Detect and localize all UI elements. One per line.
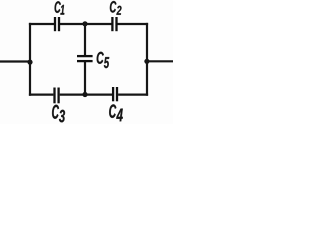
wire right terminal lead <box>147 60 173 62</box>
node junction dot right <box>144 59 149 64</box>
wire top rail right segment <box>118 23 149 25</box>
wire left terminal lead <box>0 60 30 62</box>
capacitor C1 plates <box>54 17 56 31</box>
wire left vertical <box>29 23 31 96</box>
capacitor C3 plates <box>53 88 55 104</box>
wire middle vertical top segment <box>84 23 86 56</box>
node junction dot left <box>27 60 32 65</box>
label C5 <box>97 52 110 68</box>
label C4 <box>109 104 123 121</box>
label C2 <box>110 1 122 15</box>
wire bottom rail middle segment <box>60 93 112 95</box>
wire middle vertical bottom segment <box>84 61 86 96</box>
wire right vertical <box>146 23 148 96</box>
capacitor C4 plates <box>112 87 114 101</box>
label C1 <box>55 1 65 14</box>
node junction dot top center <box>82 21 87 26</box>
capacitor C5 plates <box>77 55 93 57</box>
capacitor C2 plates <box>111 17 113 31</box>
wire bottom rail right segment <box>118 93 148 95</box>
label C3 <box>52 105 65 123</box>
wire top rail left segment <box>29 23 54 25</box>
node junction dot bottom center <box>82 92 87 97</box>
wire bottom rail left segment <box>29 93 54 95</box>
wire top rail middle segment <box>60 23 112 25</box>
